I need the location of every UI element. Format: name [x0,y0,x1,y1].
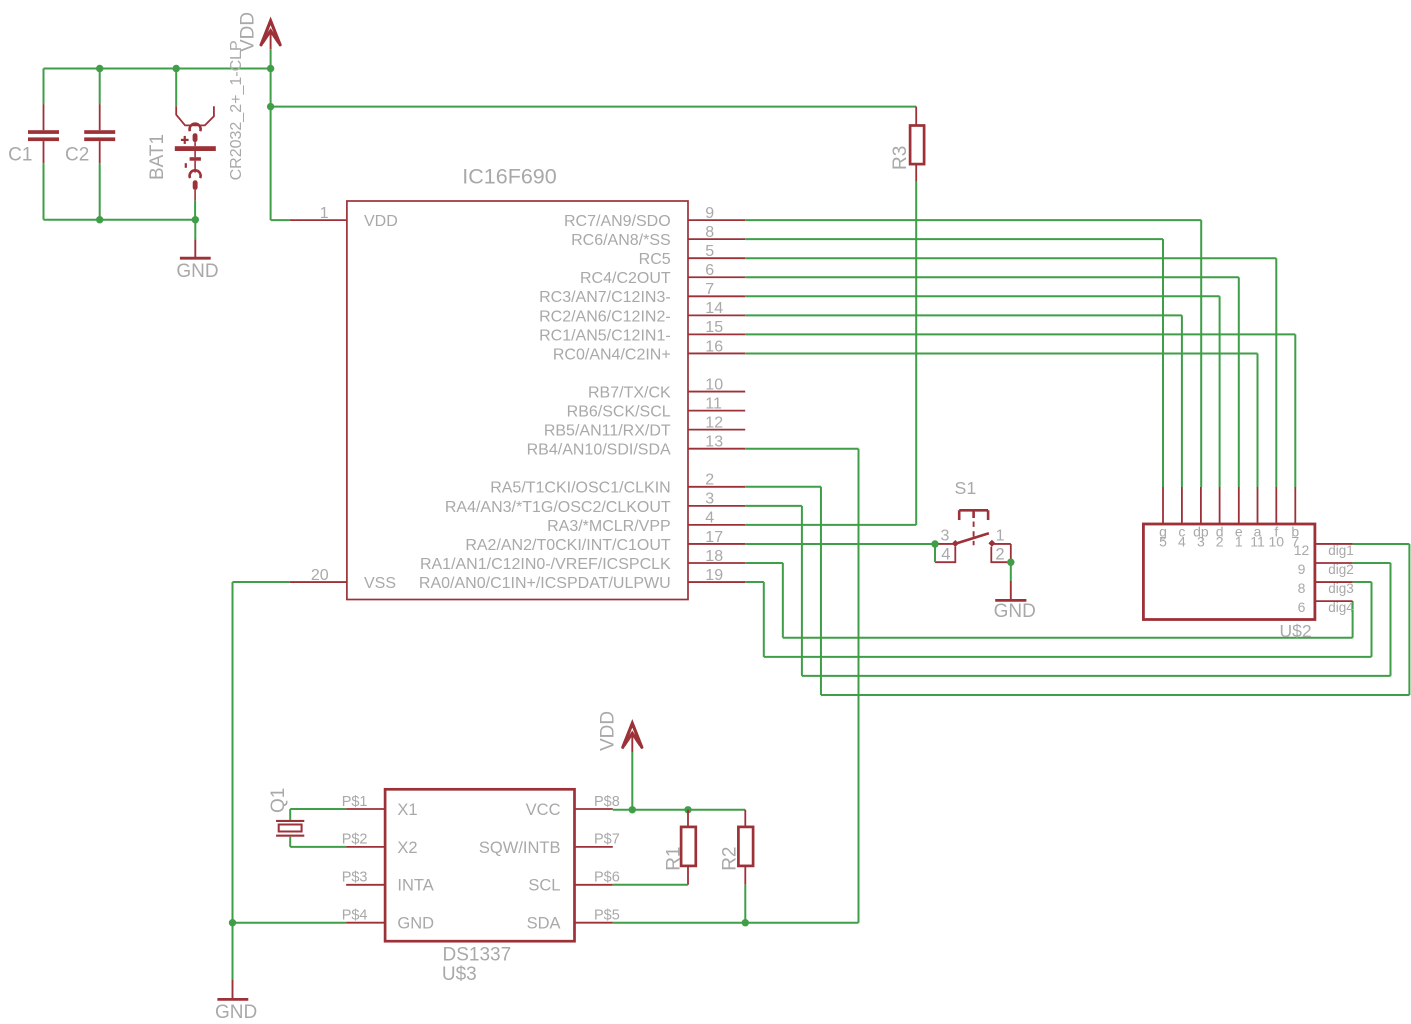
svg-text:P$5: P$5 [594,908,620,924]
junction dot C2 bottom [96,216,103,223]
svg-text:R2: R2 [720,847,741,871]
svg-text:19: 19 [705,567,723,584]
op-amp-style IC box IC16F690 [347,164,688,599]
svg-text:dig4: dig4 [1328,600,1354,615]
pin 3 RA4/AN3/*T1G/OSC2/CLKOUT [445,491,745,516]
svg-text:7: 7 [705,281,714,298]
svg-text:RC0/AN4/C2IN+: RC0/AN4/C2IN+ [553,346,671,363]
junction dot VDD tap [629,806,636,813]
pin 7 RC3/AN7/C12IN3- [539,281,745,306]
svg-text:13: 13 [705,434,723,451]
svg-text:GND: GND [215,1002,257,1023]
svg-text:P$4: P$4 [342,908,368,924]
svg-text:6: 6 [705,262,714,279]
svg-text:RC5: RC5 [639,251,671,268]
wire VDD vertical [270,69,272,221]
svg-text:1: 1 [1235,534,1243,550]
pin 1 VDD [290,205,398,230]
svg-text:SCL: SCL [528,877,560,895]
capacitor C1 [8,69,59,220]
pin 19 RA0/AN0/C1IN+/ICSPDAT/ULPWU [419,567,745,592]
DS1337 pin P$7 SQW/INTB [479,832,620,857]
svg-text:IC16F690: IC16F690 [462,164,556,188]
junction dot VDD rail [267,65,274,72]
svg-text:RA0/AN0/C1IN+/ICSPDAT/ULPWU: RA0/AN0/C1IN+/ICSPDAT/ULPWU [419,575,671,592]
svg-text:dig2: dig2 [1328,562,1354,577]
junction dot VDD branch [267,103,274,110]
svg-text:Q1: Q1 [268,788,289,813]
switch S1 [935,478,1011,563]
wire R2 to SDA [744,885,746,923]
pin 17 RA2/AN2/T0CKI/INT/C1OUT [465,529,745,554]
svg-text:R1: R1 [663,847,684,871]
display pin 5 (g) [1159,487,1167,550]
wire RC7/AN9/SDO to display [745,220,1201,487]
svg-text:RB4/AN10/SDI/SDA: RB4/AN10/SDI/SDA [527,442,671,459]
svg-text:GND: GND [994,601,1036,622]
DS1337 pin P$2 X2 [342,832,418,857]
display pin 2 (d) [1216,487,1224,550]
svg-text:P$8: P$8 [594,794,620,810]
wire RC1/AN5/C12IN1- to display [745,334,1295,487]
svg-text:4: 4 [705,510,714,527]
svg-text:RB6/SCK/SCL: RB6/SCK/SCL [567,404,671,421]
svg-text:P$7: P$7 [594,832,620,848]
svg-text:VSS: VSS [364,575,396,592]
pin 10 RB7/TX/CK [588,376,745,401]
junction dot S1 pin2 [1007,559,1014,566]
svg-text:RA3/*MCLR/VPP: RA3/*MCLR/VPP [547,518,671,535]
svg-text:20: 20 [311,567,329,584]
wire pin1 connect [271,219,290,221]
display pin 10 (f) [1269,487,1285,550]
svg-text:SQW/INTB: SQW/INTB [479,839,561,857]
DS1337 pin P$8 VCC [526,794,620,819]
pin 11 RB6/SCK/SCL [567,395,746,420]
svg-text:VDD: VDD [597,711,618,751]
svg-text:RA4/AN3/*T1G/OSC2/CLKOUT: RA4/AN3/*T1G/OSC2/CLKOUT [445,499,671,516]
svg-text:14: 14 [705,300,723,317]
wire VCC row [613,809,746,811]
resistor R3 [890,107,924,182]
DS1337 pin P$5 SDA [527,908,620,933]
svg-text:3: 3 [1197,534,1205,550]
junction dot S1 pin3 [931,540,938,547]
svg-text:U$3: U$3 [442,964,477,985]
DS1337 pin P$3 INTA [342,870,434,895]
svg-text:RA5/T1CKI/OSC1/CLKIN: RA5/T1CKI/OSC1/CLKIN [490,480,671,497]
svg-text:3: 3 [705,491,714,508]
wire SDA row [613,922,859,924]
wire RC4/C2OUT to display [745,277,1239,487]
wire RC3/AN7/C12IN3- to display [745,296,1219,487]
svg-text:15: 15 [705,319,723,336]
svg-text:DS1337: DS1337 [443,945,512,966]
svg-text:GND: GND [397,915,434,933]
display U$2 box [1143,524,1315,641]
junction dot GND bottom-left [229,919,236,926]
display pin 7 (b) [1291,487,1299,550]
wire RC2/AN6/C12IN2- to display [745,315,1182,487]
pin 4 RA3/*MCLR/VPP [547,510,745,535]
svg-text:18: 18 [705,548,723,565]
pin 2 RA5/T1CKI/OSC1/CLKIN [490,472,745,497]
pin 15 RC1/AN5/C12IN1- [539,319,745,344]
pin 18 RA1/AN1/C12IN0-/VREF/ICSPCLK [420,548,745,573]
wire R3 to RA3 [915,182,917,525]
ground GND (battery) [176,220,218,283]
wire dig3 net [745,582,1371,657]
wire dig1 net [745,487,1409,695]
svg-text:10: 10 [1269,534,1285,550]
wire RA2 to S1 [745,543,935,545]
svg-text:3: 3 [940,528,949,545]
pin 16 RC0/AN4/C2IN+ [553,338,745,363]
svg-text:INTA: INTA [397,877,433,895]
svg-text:X1: X1 [397,801,417,819]
display pin 9 net dig2 [1298,561,1354,577]
ground GND (S1) [994,562,1036,622]
svg-text:BAT1: BAT1 [147,134,168,180]
svg-text:R3: R3 [890,146,911,170]
display pin 1 (e) [1235,487,1243,550]
display pin 11 (a) [1250,487,1265,550]
svg-text:GND: GND [176,261,218,282]
svg-text:4: 4 [941,546,950,564]
svg-text:RA2/AN2/T0CKI/INT/C1OUT: RA2/AN2/T0CKI/INT/C1OUT [465,537,671,554]
svg-text:RC2/AN6/C12IN2-: RC2/AN6/C12IN2- [539,308,671,325]
pin 14 RC2/AN6/C12IN2- [539,300,745,325]
svg-text:U$2: U$2 [1280,621,1312,641]
svg-text:RA1/AN1/C12IN0-/VREF/ICSPCLK: RA1/AN1/C12IN0-/VREF/ICSPCLK [420,556,671,573]
svg-text:9: 9 [1298,561,1306,577]
pin 6 RC4/C2OUT [580,262,745,287]
display pin 12 net dig1 [1294,542,1354,558]
svg-text:4: 4 [1178,534,1186,550]
svg-text:12: 12 [1294,542,1310,558]
svg-text:P$6: P$6 [594,870,620,886]
junction dot BAT1 top [173,65,180,72]
svg-text:RC1/AN5/C12IN1-: RC1/AN5/C12IN1- [539,327,671,344]
pin 9 RC7/AN9/SDO [564,205,745,230]
capacitor C2 [65,69,115,220]
wire RC0/AN4/C2IN+ to display [745,353,1257,487]
svg-text:16: 16 [705,338,723,355]
wire dig4 net [745,563,1352,638]
svg-text:12: 12 [705,414,723,431]
svg-text:RB7/TX/CK: RB7/TX/CK [588,384,671,401]
svg-text:8: 8 [705,224,714,241]
svg-text:2: 2 [1216,534,1224,550]
pin 12 RB5/AN11/RX/DT [544,414,745,439]
wire GND bottom rail [44,219,196,221]
svg-text:5: 5 [1159,534,1167,550]
svg-text:dig1: dig1 [1328,543,1354,558]
junction dot SDA R2 [742,919,749,926]
svg-text:VDD: VDD [364,213,398,230]
supply VDD arrow (bottom) [597,711,641,810]
svg-text:C1: C1 [8,145,32,166]
DS1337 pin P$1 X1 [342,794,418,819]
display pin 3 (dp) [1193,487,1209,550]
svg-text:VDD: VDD [238,12,259,52]
crystal Q1 [268,788,346,847]
svg-text:2: 2 [995,545,1004,563]
wire VDD to R3 [271,106,917,108]
resistor R2 [720,810,754,885]
battery BAT1 [147,40,245,219]
wire RC6/AN8/*SS to display [745,239,1163,487]
svg-text:dig3: dig3 [1328,581,1354,596]
svg-text:8: 8 [1298,580,1306,596]
svg-text:RB5/AN11/RX/DT: RB5/AN11/RX/DT [544,423,671,440]
wire SDA from RB4 [745,449,858,923]
junction dot BAT1 bottom [192,216,199,223]
resistor R1 [663,810,695,885]
svg-text:11: 11 [705,395,722,412]
svg-text:S1: S1 [955,478,977,498]
svg-text:RC3/AN7/C12IN3-: RC3/AN7/C12IN3- [539,289,671,306]
svg-text:P$2: P$2 [342,832,368,848]
svg-text:SDA: SDA [527,915,561,933]
svg-text:1: 1 [996,527,1005,544]
svg-text:VCC: VCC [526,801,561,819]
pin 20 VSS [290,567,396,592]
svg-text:RC4/C2OUT: RC4/C2OUT [580,270,671,287]
supply VDD arrow (top) [238,12,281,69]
DS1337 pin P$4 GND [342,908,434,933]
junction dot C2 top [96,65,103,72]
svg-text:CR2032_2+_1-CLP: CR2032_2+_1-CLP [228,40,245,180]
wire dig2 net [745,506,1390,676]
pin 8 RC6/AN8/*SS [571,224,745,249]
svg-text:1: 1 [320,205,329,222]
junction dot R1 tap [684,806,691,813]
DS1337 pin P$6 SCL [528,870,619,895]
svg-text:X2: X2 [397,839,417,857]
svg-text:2: 2 [705,472,714,489]
display pin 6 net dig4 [1298,599,1355,615]
svg-text:11: 11 [1250,534,1265,550]
ground GND (bottom left) [215,923,257,1023]
svg-text:10: 10 [705,376,723,393]
svg-text:5: 5 [705,243,714,260]
pin 5 RC5 [639,243,746,268]
wire VDD top rail [44,68,271,70]
svg-text:RC7/AN9/SDO: RC7/AN9/SDO [564,213,671,230]
display pin 8 net dig3 [1298,580,1354,596]
svg-text:P$1: P$1 [342,794,368,810]
pin 13 RB4/AN10/SDI/SDA [527,434,746,459]
RTC IC U$3 DS1337 box [385,789,574,985]
svg-text:9: 9 [705,205,714,222]
svg-text:17: 17 [705,529,723,546]
display pin 4 (c) [1178,487,1186,550]
wire RA3 to R3 bottom [745,524,916,526]
svg-text:6: 6 [1298,599,1306,615]
wire RC5 to display [745,258,1276,487]
svg-text:C2: C2 [65,145,89,166]
svg-text:RC6/AN8/*SS: RC6/AN8/*SS [571,232,671,249]
wire VSS net [233,582,347,923]
wire SCL row [613,884,688,886]
svg-text:P$3: P$3 [342,870,368,886]
